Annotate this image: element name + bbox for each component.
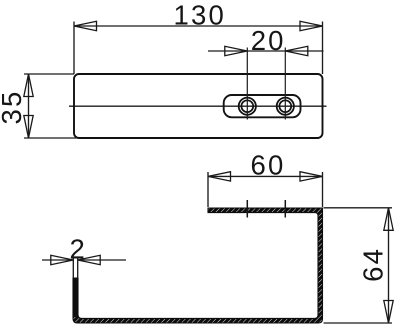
dimension 130: left arrow (74, 21, 97, 30)
plate outline (top view rectangle) (74, 74, 323, 138)
dimension 60: extension line left (207, 172, 209, 207)
wire: horizontal centerline through holes (69, 105, 327, 107)
svg-text:20: 20 (251, 25, 286, 56)
dimension 35: bottom arrow (24, 116, 33, 139)
svg-text:60: 60 (251, 149, 286, 180)
dimension 60: right arrow (300, 172, 323, 181)
svg-text:130: 130 (174, 0, 226, 30)
dimension 20: extension line through hole 2 (284, 48, 286, 120)
dimension 60: dimension line (208, 175, 323, 177)
dimension 64: extension line bottom (324, 322, 393, 324)
dimension 2: right outside arrow (78, 255, 101, 264)
dimension 64: extension line top (324, 207, 393, 209)
dimension 130: dimension line (74, 25, 323, 27)
dimension 20: right outside arrow (285, 46, 308, 55)
hole 1 inner circle (241, 100, 253, 112)
bent profile thin section (hatched) (73, 208, 323, 323)
slot around holes (224, 95, 301, 117)
dimension 35: extension line bottom (24, 137, 79, 139)
dimension 64: dimension line (388, 208, 390, 323)
hole 1 outer circle (239, 98, 256, 115)
svg-text:2: 2 (70, 234, 88, 265)
hole 2 outer circle (277, 98, 294, 115)
dimension 2: extension line left face (72, 257, 74, 279)
dimension 60: extension line right (322, 172, 324, 207)
dimension 64: bottom arrow (384, 301, 393, 324)
dimension 64: top arrow (384, 208, 393, 231)
dimension 20: dimension line (208, 50, 324, 52)
dimension 2: dimension line left part (42, 259, 73, 261)
dimension 130: extension line right (322, 22, 324, 75)
dimension 35: dimension line (28, 74, 30, 138)
dimension 130: right arrow (300, 21, 323, 30)
dimension 2: dimension line right part (78, 259, 126, 261)
dimension 20: left outside arrow (225, 46, 248, 55)
dimension 2: extension line right face (77, 257, 79, 279)
dimension 35: extension line top (24, 73, 74, 75)
dimension 130: extension line left (73, 22, 75, 75)
dimension 2: left outside arrow (51, 255, 74, 264)
hole centre tick 2 on top wall (284, 200, 286, 218)
svg-text:64: 64 (357, 247, 388, 282)
svg-text:35: 35 (0, 90, 27, 125)
left wall solid (thin section shown filled) (73, 278, 78, 317)
hole centre tick 1 on top wall (246, 200, 248, 218)
dimension 60: left arrow (208, 172, 231, 181)
dimension 20: extension line through hole 1 (246, 48, 248, 120)
hole 2 inner circle (279, 100, 291, 112)
dimension 35: top arrow (24, 74, 33, 97)
